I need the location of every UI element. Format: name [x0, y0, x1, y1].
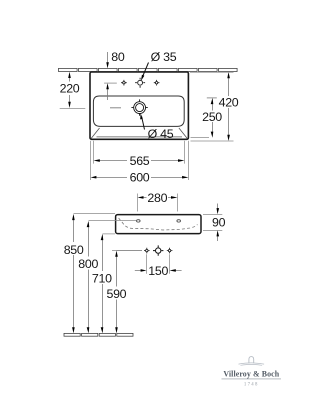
- dim 590: [116, 256, 118, 328]
- svg-text:280: 280: [147, 191, 167, 205]
- svg-text:Ø 35: Ø 35: [151, 50, 177, 64]
- faucet hole left mark: [121, 80, 127, 86]
- logo emblem: [239, 357, 265, 366]
- hole left mark (front): [144, 248, 150, 254]
- extension lines below basin for 565/600: [91, 141, 189, 180]
- dim 80 lower arrow: [107, 89, 109, 101]
- leader for D35: [142, 63, 148, 78]
- dim 220: [69, 76, 71, 103]
- hole centerline (front view): [112, 250, 142, 252]
- basin outer outline (top view): [90, 72, 188, 139]
- dim 280 extension lines: [138, 194, 178, 212]
- dim 280: [143, 197, 172, 199]
- floor line: [64, 333, 133, 336]
- leader for D45: [142, 117, 145, 130]
- svg-text:590: 590: [107, 287, 127, 301]
- svg-text:220: 220: [60, 82, 80, 96]
- svg-text:850: 850: [64, 243, 84, 257]
- dim 850: [73, 220, 75, 329]
- svg-text:1748: 1748: [244, 383, 259, 388]
- svg-text:90: 90: [212, 215, 226, 229]
- basin profile (front view): [116, 215, 201, 234]
- dim 80 line upper arrow: [107, 52, 109, 63]
- faucet hole center D35: [135, 78, 145, 88]
- extension line right of basin top: [190, 71, 234, 73]
- dim 150 arrows (outside): [135, 270, 182, 272]
- faucet hole right mark: [154, 80, 160, 86]
- dim 90 extension lines: [203, 215, 222, 231]
- dim 90 arrows: [217, 204, 219, 242]
- dim 800: [88, 227, 90, 329]
- svg-text:800: 800: [78, 257, 98, 271]
- svg-text:600: 600: [130, 171, 150, 185]
- dim 710: [102, 240, 104, 329]
- overflow dash in bowl: [110, 107, 121, 109]
- svg-text:80: 80: [111, 50, 125, 64]
- wall line (top view): [59, 68, 238, 71]
- extension lines left (850/800/710/590): [74, 214, 143, 251]
- svg-text:Ø 45: Ø 45: [148, 127, 174, 141]
- fixing hole left (profile): [137, 220, 141, 222]
- drain centerline (top view): [60, 108, 86, 110]
- hole right mark (front): [167, 248, 173, 254]
- drain hole D45: [131, 99, 147, 115]
- hole center mark (front): [153, 245, 163, 255]
- bowl inner outline (top view): [93, 96, 184, 126]
- svg-text:420: 420: [219, 96, 239, 110]
- bowl bottom dashed line (profile): [119, 218, 198, 230]
- svg-text:250: 250: [202, 110, 222, 124]
- dim 600: [96, 177, 183, 179]
- dim 420 (right): [228, 77, 230, 137]
- basin front apron line: [97, 136, 183, 138]
- svg-text:Villeroy & Boch: Villeroy & Boch: [223, 370, 279, 379]
- svg-text:565: 565: [130, 154, 150, 168]
- bowl corner diagonal right: [179, 128, 188, 139]
- bowl corner diagonal left: [91, 128, 100, 139]
- svg-text:150: 150: [148, 264, 168, 278]
- fixing hole right (profile): [177, 220, 181, 222]
- dim 150 extension lines: [147, 254, 170, 274]
- faucet hole centerline tick: [104, 82, 117, 84]
- dim 250 (right): [207, 97, 217, 99]
- logo rule: [222, 378, 282, 380]
- svg-text:710: 710: [92, 272, 112, 286]
- dim 565: [99, 160, 179, 162]
- extension line right of basin bottom: [191, 138, 234, 142]
